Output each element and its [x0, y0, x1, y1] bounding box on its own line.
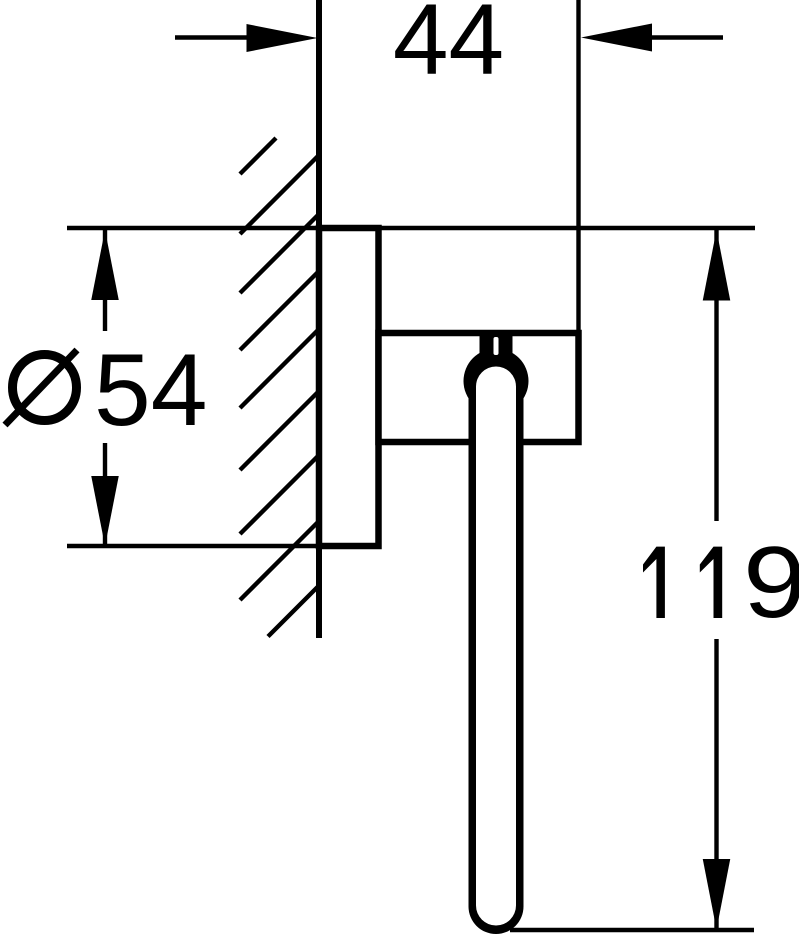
wall hatch 1 (top, clipped): [240, 138, 276, 174]
wall hatch 6: [240, 392, 319, 471]
holder arm housing: [379, 333, 579, 442]
ring tube body: [469, 381, 524, 934]
dimension 44 right arrowhead: [581, 24, 652, 52]
dimension 119 lower arrowhead: [703, 859, 731, 930]
wall hatch 3: [240, 215, 319, 294]
ring pivot neck: [480, 331, 513, 381]
dimension 119 upper arrowhead: [703, 230, 731, 301]
dimension 119 label digit 1 (second): [700, 547, 722, 618]
dimension 119 line lower stub: [714, 639, 718, 929]
extension line bottom-left (y=546, plate bottom level): [67, 544, 330, 548]
dimension 119 line upper stub: [714, 230, 718, 521]
extension line bottom (y=930, ring bottom level): [510, 928, 754, 932]
dimension D54 lower arrowhead: [91, 476, 119, 546]
dimension 44 left line: [175, 35, 250, 39]
dimension D54 line upper stub: [103, 230, 107, 331]
wall plate (escutcheon side view): [319, 228, 379, 546]
dimension D54 upper arrowhead: [91, 230, 119, 300]
pivot slot (white): [494, 337, 499, 355]
svg-text:44: 44: [393, 0, 504, 96]
dimension D54 label diameter symbol: [13, 355, 77, 421]
ring inner opening (white): [476, 367, 516, 926]
wall hatch 8: [240, 522, 319, 601]
dimension 44 right line: [650, 35, 723, 39]
wall hatch 4: [240, 272, 319, 351]
ring pivot bulb: [464, 349, 529, 414]
wall hatch 5: [240, 330, 319, 409]
svg-text:9: 9: [743, 525, 799, 638]
dimension D54 line lower stub: [103, 443, 107, 546]
wall hatch 2: [240, 156, 319, 235]
extension line top (y=228, plate top level): [67, 226, 755, 230]
svg-text:54: 54: [94, 333, 207, 447]
wall surface line: [316, 0, 322, 638]
wall hatch 9 (bottom, clipped): [268, 586, 319, 637]
dimension 119 label digit 1 (first): [643, 547, 665, 618]
dimension 44 left arrowhead: [247, 24, 318, 52]
extension line right (x=579, from top to arm): [576, 0, 580, 335]
wall hatch 7: [240, 456, 319, 535]
